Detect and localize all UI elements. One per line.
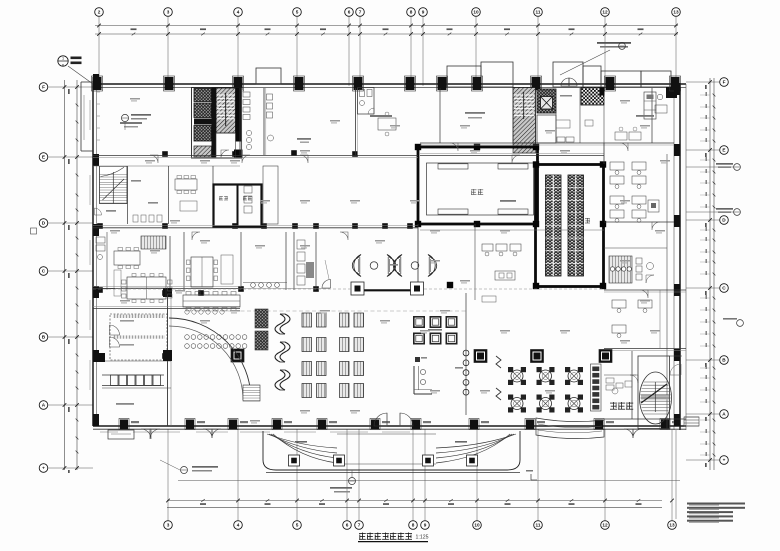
svg-text:13: 13 [673, 10, 679, 15]
svg-text:10: 10 [473, 10, 479, 15]
svg-text:5: 5 [296, 523, 299, 528]
svg-text:8: 8 [412, 523, 415, 528]
svg-text:3: 3 [167, 523, 170, 528]
svg-text:4: 4 [237, 10, 240, 15]
svg-text:1: 1 [62, 57, 64, 61]
svg-text:2: 2 [98, 10, 101, 15]
svg-text:1:125: 1:125 [416, 535, 429, 541]
svg-text:11: 11 [536, 523, 541, 528]
svg-text:8: 8 [410, 10, 413, 15]
svg-text:10: 10 [474, 523, 480, 528]
svg-text:+: + [42, 466, 45, 471]
svg-text:E: E [722, 148, 725, 153]
svg-text:6: 6 [62, 64, 64, 68]
svg-text:6: 6 [348, 10, 351, 15]
svg-text:3: 3 [167, 10, 170, 15]
svg-text:13: 13 [669, 523, 675, 528]
svg-text:9: 9 [424, 523, 427, 528]
svg-text:E: E [42, 155, 45, 160]
svg-text:12: 12 [602, 523, 608, 528]
svg-text:12: 12 [602, 10, 608, 15]
svg-text:7: 7 [359, 10, 362, 15]
svg-text:6: 6 [346, 523, 349, 528]
svg-text:+: + [723, 458, 726, 463]
svg-text:5: 5 [296, 10, 299, 15]
svg-text:11: 11 [536, 10, 541, 15]
svg-text:7: 7 [358, 523, 361, 528]
svg-text:F: F [42, 85, 45, 90]
svg-text:4: 4 [237, 523, 240, 528]
svg-text:F: F [723, 80, 726, 85]
svg-text:9: 9 [422, 10, 425, 15]
